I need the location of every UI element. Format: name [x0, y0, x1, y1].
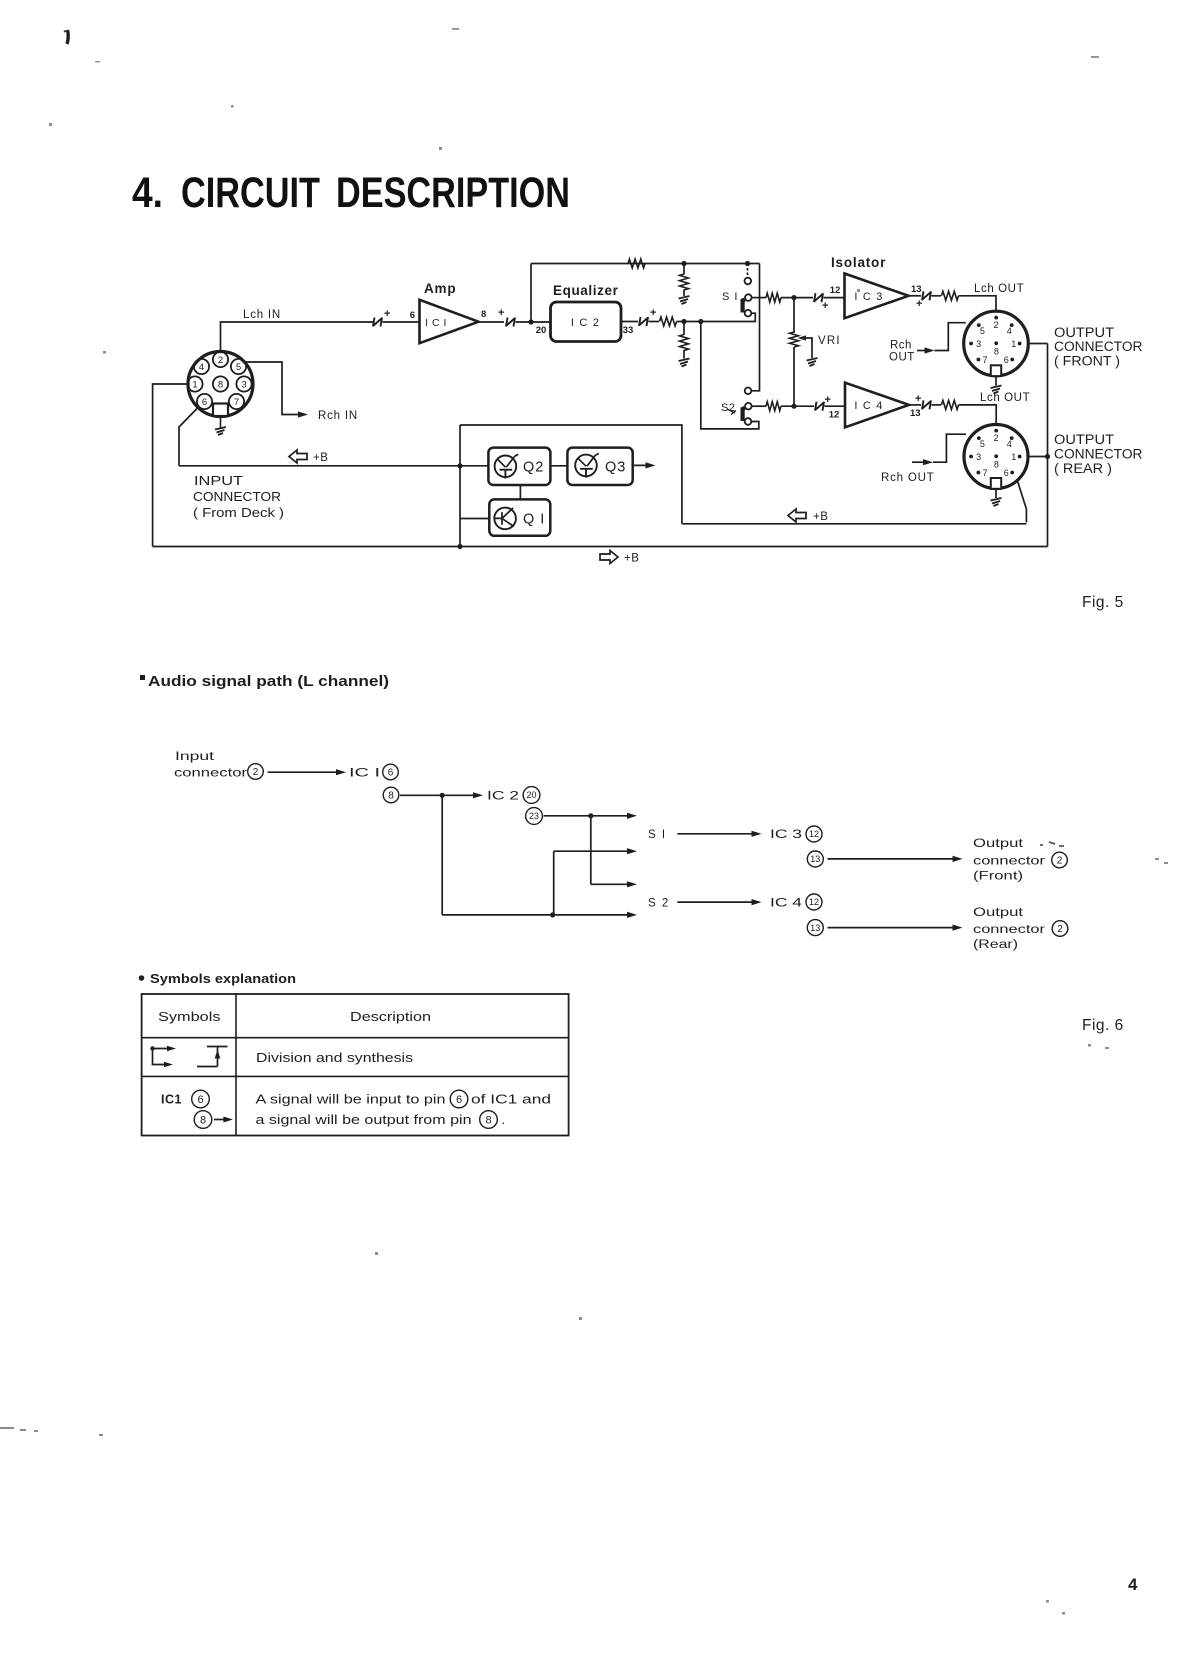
wire feedback to S1 top contact: [747, 264, 749, 278]
svg-text:Rch: Rch: [890, 340, 912, 352]
section bullet Audio signal path: [140, 675, 145, 680]
svg-text:2: 2: [218, 355, 223, 366]
svg-text:( REAR ): ( REAR ): [1054, 461, 1112, 476]
capacitor C7: [922, 400, 931, 409]
svg-text:S I: S I: [722, 291, 738, 303]
input connector pin 6: [197, 394, 212, 409]
flow arrow input to IC1: [268, 771, 340, 773]
svg-text:2: 2: [1057, 924, 1063, 935]
table text row 3 line 1: [256, 1090, 552, 1108]
flow arrow IC3 to front connector: [828, 858, 957, 860]
svg-text:Q2: Q2: [523, 460, 544, 476]
resistor R2 to ground: [683, 264, 685, 275]
op-amp IC1 (Amp): [420, 300, 479, 343]
svg-text:4: 4: [1007, 439, 1012, 449]
wire S1 pole to R4: [752, 297, 766, 299]
table symbol synthesis: [197, 1047, 228, 1067]
svg-text:8: 8: [388, 791, 394, 802]
resistor R8 to ground: [683, 322, 685, 336]
svg-text:Description: Description: [350, 1010, 431, 1024]
svg-text:CONNECTOR: CONNECTOR: [193, 489, 281, 504]
flow junction pin23 wire: [588, 813, 593, 818]
svg-text:12: 12: [830, 285, 841, 296]
transistor Q3: [567, 448, 632, 485]
svg-text:3: 3: [241, 379, 246, 390]
svg-text:6: 6: [1004, 468, 1009, 478]
wire Q2 to Q1: [519, 485, 521, 499]
flow arrow IC4 to rear connector: [828, 927, 957, 929]
svg-text:Q I: Q I: [523, 512, 545, 528]
resistor R6: [942, 291, 959, 300]
input connector pin 2: [213, 352, 228, 367]
wire R3 to S1 bottom contact: [677, 313, 756, 321]
output connector rear pins: [969, 429, 1021, 478]
capacitor C4 at IC3 input: [814, 293, 823, 302]
transistor Q2: [488, 448, 550, 485]
wire IC2 pin33 to C3: [621, 321, 638, 323]
transistor Q1: [489, 499, 550, 535]
wire rear connector to +B line: [1018, 481, 1027, 522]
+B arrow right (bottom): [600, 551, 618, 564]
svg-text:Symbols: Symbols: [158, 1010, 221, 1024]
capacitor C1: [373, 318, 382, 327]
flow arrow branch upper: [554, 850, 631, 852]
flow label IC4 pin13: [807, 920, 823, 936]
wire C6 to IC4: [825, 405, 846, 407]
svg-text:6: 6: [410, 310, 415, 321]
svg-text:13: 13: [810, 923, 820, 933]
svg-text:+B: +B: [313, 452, 328, 464]
flow branch vertical 2: [590, 816, 592, 885]
svg-text:( From Deck ): ( From Deck ): [193, 505, 284, 520]
svg-text:.: .: [502, 1112, 506, 1127]
svg-text:3: 3: [976, 452, 981, 462]
svg-text:OUTPUT: OUTPUT: [1054, 432, 1114, 447]
svg-text:Audio signal path (L channel): Audio signal path (L channel): [148, 674, 389, 690]
wire pin6 to +B line: [179, 409, 197, 466]
svg-text:+: +: [384, 308, 390, 320]
svg-text:connector: connector: [973, 856, 1045, 868]
wire Q3 output arrow: [633, 464, 649, 466]
svg-text:A signal will be input to pin: A signal will be input to pin: [256, 1092, 446, 1107]
flow wire pin8 to IC2: [400, 794, 477, 796]
svg-text:5: 5: [980, 439, 985, 449]
resistor R3: [660, 317, 677, 326]
flow junction under pin8 wire: [440, 793, 445, 798]
ground below R2: [679, 296, 690, 304]
junction node VR1 top: [791, 295, 796, 300]
svg-text:+: +: [916, 298, 922, 310]
svg-text:( FRONT ): ( FRONT ): [1054, 354, 1120, 369]
potentiometer VR1: [790, 332, 799, 347]
wire rear connector to bus: [1028, 456, 1048, 458]
flow label pin8: [383, 787, 399, 803]
svg-text:VRI: VRI: [818, 335, 841, 347]
junction above S1: [745, 261, 750, 266]
capacitor C6 at IC4 input: [815, 402, 824, 411]
svg-text:S I: S I: [648, 829, 667, 841]
svg-text:33: 33: [623, 325, 634, 336]
svg-text:2: 2: [1057, 856, 1063, 867]
svg-text:Output: Output: [973, 907, 1024, 919]
svg-text:8: 8: [481, 309, 486, 320]
svg-text:2: 2: [993, 433, 998, 443]
svg-text:8: 8: [218, 379, 223, 390]
svg-text:I C 2: I C 2: [571, 317, 600, 329]
svg-text:6: 6: [456, 1094, 462, 1106]
svg-text:1: 1: [1011, 339, 1016, 349]
wire C4 to IC3: [824, 297, 845, 299]
flow branch vertical 1: [441, 795, 443, 915]
page stray dashes bottom-left: [0, 1427, 103, 1436]
svg-text:IC I: IC I: [349, 768, 380, 780]
bottom bus wire: [153, 546, 1048, 548]
output connector rear key notch: [991, 478, 1001, 489]
junction under R4: [681, 319, 686, 324]
junction at bus rear: [1045, 454, 1050, 459]
output connector front key notch: [991, 365, 1001, 376]
wire C2 to IC2 pin20: [516, 321, 551, 323]
wire Q top line: [460, 425, 682, 524]
svg-text:7: 7: [982, 468, 987, 478]
svg-text:Equalizer: Equalizer: [553, 283, 619, 298]
table frame: [142, 994, 569, 1136]
flow wire to S2: [442, 914, 631, 916]
svg-text:+B: +B: [813, 511, 828, 523]
wire Rch OUT arrow into front connector: [917, 350, 929, 352]
svg-text:1: 1: [192, 379, 197, 390]
wire S2 pole to R5: [752, 405, 766, 407]
ground at front connector: [995, 376, 997, 386]
wire into Q1: [460, 518, 489, 520]
output connector front pins: [969, 316, 1021, 365]
wire IC4 out to C7: [909, 404, 921, 406]
op-amp IC3 (Isolator): [845, 274, 909, 319]
svg-text:8: 8: [200, 1114, 206, 1126]
+B wire to Q2: [179, 465, 488, 467]
junction +B wire and Q vertical: [457, 463, 462, 468]
svg-text:Rch IN: Rch IN: [318, 410, 358, 422]
capacitor C5: [922, 291, 931, 300]
+B arrow left (mid): [788, 509, 806, 522]
wire R6 to front connector (Lch OUT): [959, 296, 997, 312]
svg-text:6: 6: [1004, 355, 1009, 365]
svg-text:Fig. 5: Fig. 5: [1082, 594, 1124, 611]
svg-text:Lch OUT: Lch OUT: [980, 392, 1030, 404]
svg-text:I C I: I C I: [425, 317, 447, 329]
input connector shell: [188, 352, 253, 417]
svg-text:8: 8: [994, 346, 999, 356]
op-amp IC4 (Isolator): [845, 383, 909, 428]
svg-text:2: 2: [993, 320, 998, 330]
svg-text:13: 13: [810, 854, 820, 864]
switch S1: [743, 278, 752, 317]
svg-text:4: 4: [1128, 1575, 1138, 1594]
resistor R4: [766, 293, 781, 302]
svg-text:13: 13: [910, 408, 921, 419]
wire feedback line to S2 top contact: [751, 264, 759, 391]
label INPUT CONNECTOR (From Deck): [193, 473, 284, 520]
junction node VR1 bottom: [791, 404, 796, 409]
input connector pin 1: [187, 376, 202, 391]
flow arrow S2 to IC4: [677, 901, 755, 903]
junction to S2 branch: [698, 319, 703, 324]
table column divider: [235, 994, 237, 1136]
svg-text:+: +: [822, 300, 828, 312]
wire front connector to bus: [1028, 343, 1047, 345]
svg-text:S 2: S 2: [648, 898, 670, 910]
svg-text:Lch OUT: Lch OUT: [974, 283, 1024, 295]
input connector pin 5: [231, 359, 246, 374]
svg-text:Lch IN: Lch IN: [243, 309, 281, 321]
svg-text:OUT: OUT: [889, 352, 915, 364]
wire Rch OUT arrow into rear connector: [912, 461, 927, 463]
svg-text:connector: connector: [973, 924, 1045, 936]
svg-text:CONNECTOR: CONNECTOR: [1054, 339, 1143, 354]
svg-text:12: 12: [829, 410, 840, 421]
input connector pin 8: [213, 376, 228, 391]
junction bottom bus: [457, 544, 462, 549]
svg-text:3: 3: [976, 339, 981, 349]
table symbol division: [150, 1046, 176, 1068]
svg-text:Fig. 6: Fig. 6: [1082, 1017, 1124, 1034]
svg-text:+: +: [498, 307, 504, 319]
svg-text:Amp: Amp: [424, 281, 456, 296]
svg-text:IC 2: IC 2: [487, 791, 519, 803]
wire pin5 to Rch IN: [246, 362, 302, 415]
svg-text:Rch OUT: Rch OUT: [881, 472, 935, 484]
svg-text:4: 4: [1007, 326, 1012, 336]
wire IC1 out to C2: [479, 321, 505, 323]
svg-text:Input: Input: [175, 751, 215, 763]
svg-text:+: +: [915, 393, 921, 405]
svg-text:OUTPUT: OUTPUT: [1054, 325, 1114, 340]
svg-text:(Front): (Front): [973, 871, 1023, 883]
svg-text:IC 3: IC 3: [770, 829, 802, 841]
svg-text:+B: +B: [624, 553, 639, 565]
svg-text:4: 4: [199, 362, 204, 373]
svg-text:CIRCUIT: CIRCUIT: [181, 169, 320, 217]
wire R7 to rear connector (Lch OUT): [959, 405, 997, 425]
svg-text:connector: connector: [174, 768, 247, 780]
table row divider 1: [142, 1037, 569, 1039]
svg-text:12: 12: [809, 829, 819, 839]
+B mid wire: [682, 523, 1027, 525]
svg-text:7: 7: [982, 355, 987, 365]
svg-text:Q3: Q3: [605, 460, 626, 476]
svg-text:+: +: [650, 307, 656, 319]
ground below R8: [679, 359, 690, 367]
svg-text:DESCRIPTION: DESCRIPTION: [336, 169, 570, 217]
input connector pin 7: [229, 394, 244, 409]
svg-text:Output: Output: [973, 838, 1024, 850]
capacitor C2: [506, 318, 515, 327]
input connector pin 3: [236, 376, 251, 391]
wire IC3 out to C5: [909, 295, 922, 297]
svg-text:Division and synthesis: Division and synthesis: [256, 1051, 413, 1065]
flow label pin23: [526, 808, 543, 825]
stray smudge near Output front: [1040, 842, 1064, 846]
svg-text:Symbols explanation: Symbols explanation: [150, 972, 296, 986]
ground at VR1 wiper: [807, 358, 818, 366]
svg-text:6: 6: [197, 1094, 203, 1106]
svg-text:1: 1: [1011, 452, 1016, 462]
svg-text:INPUT: INPUT: [194, 473, 243, 488]
svg-text:IC1: IC1: [161, 1093, 182, 1107]
flow wire pin23 branch: [544, 815, 632, 817]
svg-text:CONNECTOR: CONNECTOR: [1054, 447, 1143, 462]
svg-text:I C 4: I C 4: [854, 400, 883, 412]
output connector rear shell: [964, 425, 1028, 489]
+B arrow left (input side): [289, 450, 307, 463]
output connector front shell: [964, 311, 1029, 376]
flow label IC3 pin13: [807, 851, 823, 867]
svg-text:5: 5: [236, 362, 241, 373]
feedback top wire: [531, 263, 760, 265]
resistor R7: [942, 400, 959, 409]
junction on feedback line: [681, 261, 686, 266]
svg-text:8: 8: [485, 1114, 491, 1126]
svg-text:8: 8: [994, 459, 999, 469]
svg-text:23: 23: [529, 811, 539, 821]
svg-text:(Rear): (Rear): [973, 939, 1018, 951]
wire riser from node to feedback line: [530, 264, 532, 323]
wire C3 to R3: [649, 321, 660, 323]
svg-text:2: 2: [253, 767, 259, 778]
svg-text:20: 20: [536, 325, 547, 336]
wire C7 to R7: [932, 404, 942, 406]
wire pin1 to left bus: [153, 384, 188, 547]
ground at input connector: [220, 417, 222, 428]
wire to S2 bottom contact: [701, 322, 759, 429]
svg-text:4.: 4.: [132, 169, 163, 217]
wire node to VR1: [793, 298, 795, 333]
label OUTPUT CONNECTOR (FRONT): [1054, 325, 1143, 369]
equalizer IC2 box: [551, 302, 622, 342]
svg-text:of IC1 and: of IC1 and: [471, 1092, 551, 1107]
svg-text:13: 13: [911, 284, 922, 295]
table text row 3 line 2: [256, 1111, 506, 1129]
flow branch vertical 3: [553, 851, 555, 915]
table row divider 2: [142, 1075, 569, 1077]
svg-text:I C 3: I C 3: [854, 291, 883, 303]
node junction at IC2 input: [528, 319, 533, 324]
wire right vertical bus: [1047, 344, 1049, 547]
svg-text:20: 20: [526, 790, 536, 800]
svg-text:7: 7: [234, 397, 239, 408]
table symbol IC1 pins: [161, 1090, 233, 1128]
wire left vertical through Q area: [459, 425, 461, 547]
svg-text:6: 6: [388, 768, 394, 779]
wire pin2 to Lch IN line: [221, 322, 374, 352]
svg-text:12: 12: [809, 897, 819, 907]
wire C5 to R6: [932, 295, 942, 297]
wire Q2 to Q3: [550, 465, 567, 467]
svg-text:a signal will be output from p: a signal will be output from pin: [256, 1112, 472, 1127]
ground at rear connector: [995, 489, 997, 499]
svg-text:5: 5: [980, 326, 985, 336]
svg-text:Isolator: Isolator: [831, 255, 886, 270]
VR1 wiper arrow: [798, 335, 806, 340]
wire R4 to node: [781, 297, 813, 299]
label OUTPUT CONNECTOR (REAR): [1054, 432, 1143, 476]
svg-text:IC 4: IC 4: [770, 898, 803, 910]
input connector key notch: [213, 404, 228, 417]
svg-text:6: 6: [202, 397, 207, 408]
wire R5 to node: [781, 405, 814, 407]
page stray mark top-left: [67, 30, 68, 44]
wire C1 to IC1 pin6: [383, 321, 420, 323]
switch S2: [743, 388, 752, 425]
flow junction on S2 wire: [550, 912, 555, 917]
capacitor C3: [639, 317, 648, 326]
input connector pin 4: [194, 359, 209, 374]
resistor R5: [766, 402, 781, 411]
resistor R1 on feedback line: [628, 259, 645, 268]
flow arrow S1 to IC3: [677, 833, 755, 835]
section heading 4. CIRCUIT DESCRIPTION: [132, 169, 570, 217]
svg-text:+: +: [825, 394, 831, 406]
section bullet Symbols explanation: [139, 975, 145, 981]
flow arrow branch mid: [591, 883, 631, 885]
